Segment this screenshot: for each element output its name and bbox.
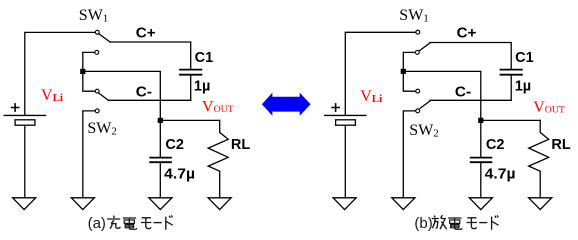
wire C+ line to C1 top [110, 42, 191, 69]
wire SW2 right pole to ground [403, 111, 415, 198]
ground RL right [529, 198, 552, 210]
battery BT2 negative electrode box [336, 120, 356, 125]
switch SW2 pole contact [95, 109, 99, 113]
capacitor C2 top plate [150, 157, 171, 159]
wire C2 bottom to ground [159, 163, 161, 197]
switch SW2 blade (closed to upper contact) [99, 93, 109, 100]
ground battery [13, 198, 36, 210]
node junction rail to VOUT wire [80, 69, 85, 74]
svg-text:4.7µ: 4.7µ [164, 167, 195, 183]
kanji 電 (electricity) right caption [448, 218, 462, 229]
wire VOUT node to C2 [159, 120, 161, 157]
wire C1 right bottom to C- line [510, 76, 512, 101]
wire C1 bottom to C- line [190, 76, 192, 101]
capacitor C2 right top plate [471, 157, 492, 159]
switch SW1 pole contact [95, 30, 99, 34]
resistor RL right [529, 120, 549, 197]
switch SW2 upper throw contact [95, 89, 99, 93]
svg-text:RL: RL [231, 137, 250, 153]
svg-text:C-: C- [136, 84, 152, 100]
ground C2 right [469, 198, 492, 210]
wire rail right vertical [403, 52, 415, 91]
battery BT1 negative electrode box [15, 120, 35, 125]
svg-text:SW1: SW1 [399, 7, 429, 24]
node VOUT right junction [478, 118, 483, 123]
node junction rail right [401, 69, 406, 74]
switch SW1 right lower throw contact [415, 50, 419, 54]
battery plus sign [12, 104, 19, 111]
svg-text:(a): (a) [88, 215, 106, 232]
svg-text:4.7µ: 4.7µ [485, 167, 516, 183]
switch SW2 right pole contact [416, 109, 420, 113]
battery BT1 positive plate [4, 114, 45, 116]
wire VOUT node to RL [160, 119, 219, 121]
svg-text:VLi: VLi [41, 87, 63, 104]
wire C+ line right to C1 top [430, 43, 511, 69]
svg-text:SW1: SW1 [79, 7, 109, 24]
svg-text:(b): (b) [414, 215, 432, 232]
wire battery bottom to ground [24, 126, 26, 198]
ground SW2 [71, 198, 94, 210]
svg-text:RL: RL [551, 137, 570, 153]
svg-text:SW2: SW2 [409, 122, 439, 139]
wire VOUT right node to RL [481, 119, 540, 121]
wire rail right junction to VOUT node [403, 71, 481, 118]
svg-text:C+: C+ [136, 26, 156, 42]
svg-text:C2: C2 [486, 137, 505, 153]
switch SW1 blade (closed to C+ line) [99, 34, 110, 42]
katakana long vowel bar left caption [154, 222, 162, 224]
switch SW1 lower throw contact [95, 50, 99, 54]
capacitor C1 bottom plate [180, 74, 201, 76]
capacitor C1 right top plate [501, 69, 522, 71]
katakana mo left caption [141, 218, 151, 229]
wire rail SW contacts vertical [83, 52, 95, 91]
kanji 電 (electricity) left caption [123, 218, 137, 229]
capacitor C2 right bottom plate [471, 161, 492, 163]
svg-text:VLi: VLi [360, 88, 382, 105]
ground SW2 right [392, 198, 415, 210]
kanji 充 (charge) left caption [107, 216, 120, 229]
katakana do right caption [492, 215, 499, 229]
svg-text:C+: C+ [457, 26, 477, 42]
svg-text:C1: C1 [515, 50, 534, 66]
ground battery right [333, 198, 356, 210]
capacitor C1 top plate [180, 69, 201, 71]
wire battery top to SW1 pole [345, 32, 415, 115]
katakana do left caption [166, 215, 173, 229]
svg-text:C2: C2 [165, 137, 184, 153]
wire battery top to SW1 pole [25, 32, 95, 114]
switch SW1 right pole contact (open) [416, 30, 420, 34]
svg-text:VOUT: VOUT [533, 99, 565, 116]
battery BT2 plus sign [332, 104, 339, 111]
node VOUT junction [158, 118, 163, 123]
blue double arrow [262, 93, 311, 116]
svg-text:C1: C1 [195, 50, 214, 66]
wire VOUT right node to C2 [480, 120, 482, 157]
wire C2 right bottom to ground [480, 163, 482, 197]
battery BT2 positive plate [325, 114, 366, 116]
capacitor C2 bottom plate [150, 161, 171, 163]
ground RL [208, 198, 231, 210]
svg-text:SW2: SW2 [87, 120, 117, 137]
wire C- line [109, 99, 191, 101]
svg-text:1µ: 1µ [194, 78, 210, 94]
wire SW2 pole to ground [83, 111, 95, 198]
ground C2 [149, 198, 172, 210]
wire C- line right [430, 99, 511, 101]
switch SW2 right upper throw contact (open) [416, 89, 420, 93]
katakana long vowel bar right caption [479, 222, 487, 224]
switch SW2 right blade (closed to pole) [420, 101, 430, 108]
wire battery bottom to ground [344, 126, 346, 198]
svg-text:1µ: 1µ [515, 79, 531, 95]
svg-text:C-: C- [455, 84, 471, 100]
capacitor C1 right bottom plate [501, 74, 522, 76]
katakana mo right caption [467, 218, 477, 229]
switch SW1 right blade (closed to lower contact) [420, 43, 430, 51]
wire rail junction to VOUT node [83, 71, 161, 118]
kanji 放 (discharge) right caption [432, 215, 447, 229]
svg-text:VOUT: VOUT [202, 99, 234, 116]
resistor RL [208, 120, 228, 197]
